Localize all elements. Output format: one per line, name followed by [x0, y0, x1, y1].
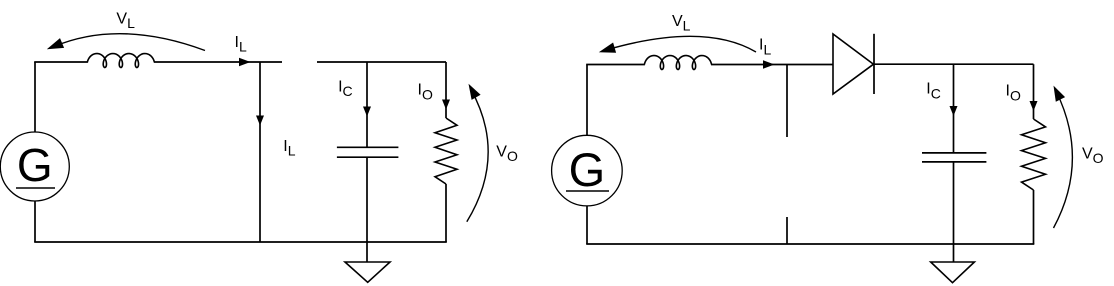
svg-text:IC: IC: [926, 81, 941, 102]
wire ground stub (left): [366, 242, 368, 262]
svg-text:IL: IL: [235, 34, 247, 55]
wire G1 bottom lead: [34, 201, 36, 242]
generator G1 (left source): [0, 132, 69, 201]
wire inductor to diode (right): [711, 64, 833, 66]
VL polarity arrow (left): [47, 34, 205, 51]
VL polarity arrow (right): [599, 36, 756, 52]
current arrow IL (left top): [239, 58, 251, 67]
svg-text:IL: IL: [759, 37, 771, 58]
wire ground stub (right): [953, 244, 955, 262]
wire resistor bottom lead (right): [1033, 190, 1035, 244]
wire left bottom rail: [34, 241, 447, 243]
svg-text:G: G: [17, 139, 53, 191]
svg-text:VO: VO: [496, 143, 518, 164]
svg-text:IO: IO: [1006, 83, 1021, 104]
capacitor C2: [922, 153, 986, 162]
resistor R1: [435, 118, 457, 184]
current arrow IL (switch branch): [256, 116, 264, 126]
wire G1 top lead: [34, 62, 36, 132]
current arrow IO (left): [442, 100, 450, 110]
current arrow IC (right): [950, 106, 958, 116]
wire inductor to node (left): [154, 61, 282, 63]
svg-text:VO: VO: [1082, 145, 1104, 166]
svg-text:VL: VL: [672, 13, 691, 34]
wire switch branch (left, closed): [259, 62, 261, 242]
svg-text:IL: IL: [283, 138, 295, 159]
svg-text:IC: IC: [338, 78, 353, 99]
capacitor C1: [337, 147, 399, 157]
ground (left): [345, 262, 390, 282]
wire resistor top lead (left): [445, 62, 447, 118]
wire open switch lower stub (right): [786, 217, 788, 244]
current arrow IO (right): [1030, 101, 1038, 111]
wire resistor bottom lead (left): [445, 184, 447, 242]
svg-text:VL: VL: [116, 10, 135, 31]
wire left top rail to inductor: [34, 61, 88, 63]
wire G2 top lead: [586, 65, 588, 136]
current arrow IL (right): [763, 60, 775, 69]
inductor L1: [87, 54, 154, 68]
wire capacitor top lead (left): [366, 62, 368, 147]
resistor R2: [1022, 119, 1046, 190]
svg-text:IO: IO: [418, 82, 433, 103]
wire right top rail to inductor: [586, 64, 645, 66]
diode D1: [833, 34, 874, 94]
wire right bottom rail: [586, 243, 1034, 245]
current arrow IC (left): [363, 107, 371, 117]
VO polarity arrow (right): [1054, 86, 1073, 228]
VO polarity arrow (left): [467, 84, 488, 222]
generator G2 (right source): [552, 135, 623, 206]
ground (right): [931, 262, 975, 283]
wire capacitor bottom lead (right): [953, 162, 955, 244]
wire open switch upper stub (right): [786, 65, 788, 138]
wire resistor top lead (right): [1033, 64, 1035, 119]
wire capacitor bottom lead (left): [366, 157, 368, 242]
wire RC section top rail (left): [317, 61, 446, 63]
wire capacitor top lead (right): [953, 64, 955, 153]
svg-text:G: G: [569, 143, 606, 196]
wire diode to output node (right): [874, 63, 1034, 65]
wire G2 bottom lead: [586, 206, 588, 244]
inductor L2: [644, 56, 711, 70]
